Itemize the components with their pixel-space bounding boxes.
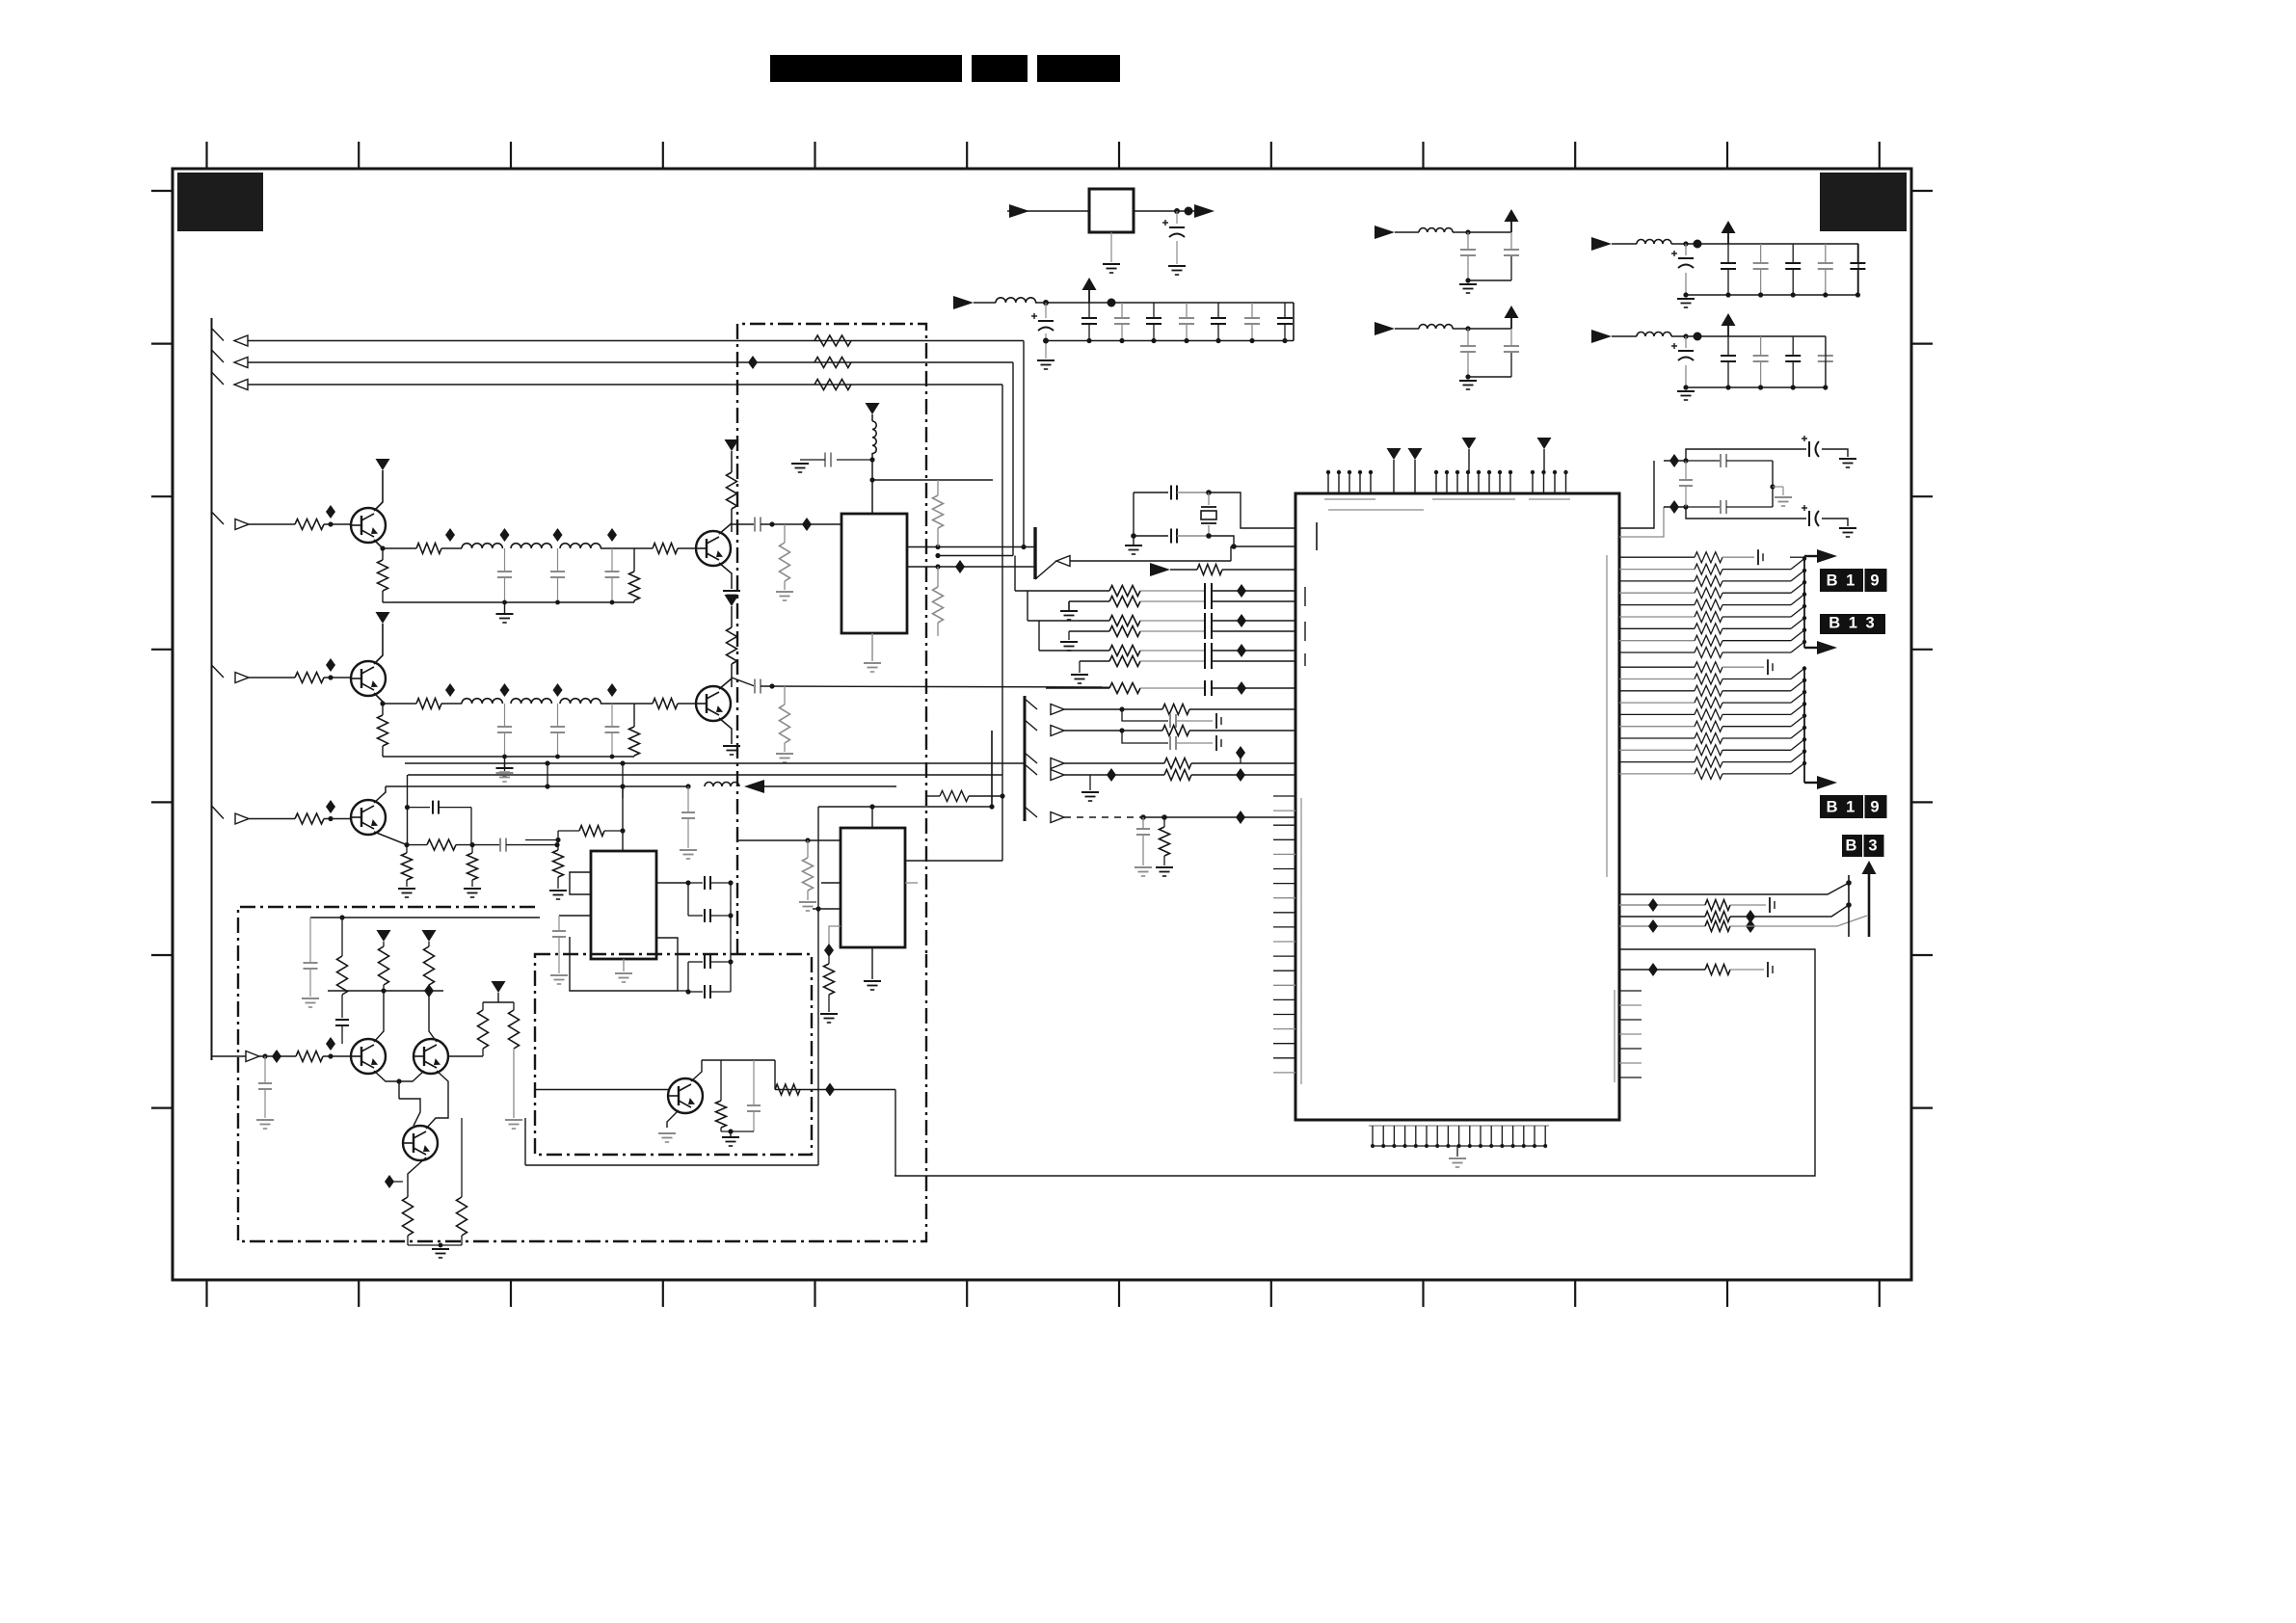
frame tick left bbox=[151, 801, 173, 803]
pin wire bbox=[1619, 666, 1695, 668]
inductor L22 bbox=[511, 699, 551, 704]
pin bbox=[1273, 824, 1295, 826]
wire bbox=[1686, 294, 1858, 296]
bus arrow bbox=[1804, 555, 1820, 557]
pin dot bbox=[1445, 470, 1449, 474]
wire bbox=[1664, 460, 1686, 462]
resistor bank1-8 bbox=[1695, 648, 1722, 658]
wire bbox=[1015, 590, 1109, 592]
signal arrow bbox=[1056, 556, 1070, 567]
power input arrow bbox=[953, 296, 974, 309]
resistor R11 bbox=[295, 519, 324, 530]
wire stub bbox=[212, 806, 225, 819]
inductor L11 bbox=[462, 544, 502, 548]
wire bbox=[1722, 604, 1791, 606]
capacitor C83 bbox=[1186, 303, 1188, 318]
pin dot bbox=[1498, 470, 1502, 474]
pin bbox=[1619, 1062, 1642, 1064]
merge diagonal bbox=[1791, 728, 1804, 738]
node bbox=[439, 1243, 443, 1248]
pin wire bbox=[1619, 616, 1695, 618]
transistor QA3 bbox=[403, 1126, 438, 1160]
frame tick top bbox=[1118, 142, 1120, 169]
capacitor C1b bbox=[1504, 249, 1519, 251]
pin bbox=[1532, 472, 1534, 493]
pin bbox=[1467, 472, 1469, 493]
wire loop bbox=[894, 949, 1815, 1176]
pin bbox=[1499, 472, 1501, 493]
wire bbox=[1212, 600, 1296, 602]
capacitor C17 bbox=[754, 518, 756, 532]
merge diagonal bbox=[1791, 630, 1804, 641]
diamond junction bbox=[326, 505, 335, 519]
wire bbox=[1686, 449, 1806, 461]
pin bbox=[1509, 472, 1511, 493]
diamond junction bbox=[1746, 919, 1755, 933]
dash-dot enclosure tall bbox=[737, 324, 926, 954]
transistor QB1 bbox=[668, 1078, 703, 1113]
merge diagonal bbox=[1791, 704, 1804, 714]
capacitor C1523 bbox=[504, 548, 506, 572]
capacitor C96 bbox=[688, 882, 703, 884]
IC pin stub bbox=[905, 882, 918, 884]
wire bbox=[374, 693, 383, 704]
wire bbox=[1140, 650, 1205, 652]
node bbox=[328, 521, 333, 526]
resistor RB1 bbox=[720, 1060, 722, 1101]
wire bbox=[1140, 590, 1205, 592]
IC U3 bbox=[591, 851, 656, 959]
node bbox=[1683, 241, 1688, 246]
capacitor C1635 bbox=[611, 548, 613, 572]
capacitor bbox=[1204, 653, 1206, 669]
wire bbox=[1039, 650, 1109, 652]
wire bbox=[1007, 210, 1089, 212]
resistor bank2-5 bbox=[1695, 721, 1722, 732]
wire bbox=[426, 1099, 448, 1129]
frame tick bottom bbox=[510, 1280, 512, 1307]
wire bbox=[1730, 916, 1867, 926]
node bbox=[380, 701, 385, 705]
pin bbox=[1273, 912, 1295, 914]
capacitor C27 bbox=[754, 679, 756, 694]
power triangle bbox=[725, 595, 739, 606]
wire bbox=[506, 844, 558, 846]
merge dot bbox=[1802, 726, 1806, 730]
pin bbox=[1393, 1126, 1395, 1146]
pin bbox=[1273, 795, 1295, 797]
capacitor CA2 bbox=[335, 1019, 349, 1021]
merge dot bbox=[1802, 749, 1806, 753]
wire bbox=[1773, 486, 1783, 488]
node bbox=[685, 989, 690, 994]
resistor bank2-4 bbox=[1695, 709, 1722, 720]
resistor bank2-0 bbox=[1695, 662, 1722, 673]
wire bbox=[1189, 708, 1296, 710]
pin dot bbox=[1392, 1144, 1396, 1148]
node bbox=[935, 553, 940, 558]
node bbox=[1823, 385, 1828, 389]
capacitor C30 bbox=[837, 459, 872, 461]
pin bbox=[1404, 1126, 1406, 1146]
capacitor bbox=[1204, 613, 1206, 628]
pin bbox=[1382, 1126, 1384, 1146]
ground bbox=[820, 1013, 838, 1015]
wire bbox=[441, 703, 462, 705]
transistor Q2b bbox=[696, 686, 731, 721]
pin bbox=[1458, 1126, 1460, 1146]
input arrow bbox=[235, 519, 249, 530]
wire bbox=[1664, 506, 1686, 508]
node bbox=[1119, 706, 1124, 711]
node bbox=[555, 600, 560, 605]
inner top wire bbox=[310, 917, 540, 918]
capacitor C61 bbox=[1685, 461, 1687, 480]
wire bbox=[1064, 774, 1164, 776]
power triangle bbox=[1537, 438, 1552, 449]
node bbox=[1140, 814, 1146, 820]
wire bbox=[1619, 904, 1705, 906]
wire bbox=[1395, 231, 1419, 233]
input arrow bbox=[234, 358, 248, 368]
wire bbox=[894, 1090, 896, 1177]
resistor R51 bbox=[1162, 705, 1189, 715]
wire bbox=[374, 624, 383, 664]
node bbox=[1694, 333, 1702, 341]
wire bbox=[1722, 640, 1791, 642]
pin bbox=[1619, 1077, 1642, 1078]
merge diagonal bbox=[1791, 595, 1804, 605]
node bbox=[502, 755, 507, 759]
wire bbox=[1619, 507, 1664, 537]
wire bbox=[678, 703, 696, 705]
wire bbox=[374, 786, 386, 803]
wire bbox=[622, 786, 624, 851]
filter input arrow bbox=[1375, 226, 1395, 239]
ground bbox=[776, 753, 793, 755]
node bbox=[1683, 458, 1688, 463]
node bbox=[1108, 299, 1116, 307]
resistor R96 bbox=[557, 845, 559, 850]
wire bbox=[656, 882, 688, 884]
wire bbox=[1612, 243, 1637, 245]
ground bbox=[1156, 866, 1173, 868]
pin dot bbox=[1414, 1144, 1418, 1148]
ground bbox=[799, 901, 816, 903]
wire bbox=[1176, 742, 1213, 744]
resistor RA6 bbox=[513, 1002, 515, 1010]
inductor L2 bbox=[1419, 325, 1453, 329]
node bbox=[769, 521, 774, 526]
pin bbox=[1426, 1126, 1428, 1146]
resistor R63 bbox=[1705, 921, 1730, 932]
resistor R25 bbox=[653, 699, 678, 709]
wire bbox=[1730, 905, 1849, 917]
capacitor C51 bbox=[1169, 714, 1171, 728]
pin bbox=[1468, 449, 1470, 472]
merge diagonal bbox=[1791, 559, 1804, 570]
signal arrow bbox=[1051, 758, 1064, 769]
resistor bbox=[1109, 656, 1140, 667]
wire bbox=[1012, 362, 1014, 556]
IC U1 ground bbox=[871, 633, 873, 661]
capacitor bbox=[1204, 643, 1206, 658]
wire bbox=[1395, 328, 1419, 330]
resistor R32 bbox=[937, 567, 939, 587]
wire stub bbox=[1025, 699, 1037, 709]
wire bbox=[938, 555, 1013, 557]
wire bbox=[737, 839, 841, 841]
wire bbox=[1722, 773, 1791, 775]
wire dashed bbox=[1064, 816, 1143, 818]
diamond junction bbox=[424, 984, 434, 998]
input bus wire bbox=[211, 318, 213, 1060]
wire bbox=[1064, 730, 1162, 732]
pin wire bbox=[1619, 749, 1695, 751]
wire bbox=[524, 1118, 526, 1165]
frame tick right bbox=[1911, 649, 1933, 651]
diamond junction bbox=[1648, 919, 1658, 933]
capacitor C72 bbox=[1045, 303, 1047, 318]
pin bbox=[1273, 955, 1295, 957]
wire bbox=[324, 677, 351, 678]
power arrow up bbox=[1510, 219, 1512, 232]
wire bbox=[719, 563, 732, 589]
capacitor C42 bbox=[1792, 336, 1794, 356]
label B3 bbox=[1842, 835, 1862, 857]
wire bbox=[1080, 660, 1109, 662]
wire bbox=[730, 883, 732, 916]
frame tick top bbox=[205, 142, 207, 169]
pin dot bbox=[1508, 470, 1512, 474]
node bbox=[1770, 484, 1775, 489]
IC U10 bbox=[1295, 493, 1619, 1120]
merge dot bbox=[1802, 628, 1806, 632]
pin bbox=[1273, 897, 1295, 899]
power triangle bbox=[376, 459, 390, 470]
capacitor C2635 bbox=[611, 704, 613, 727]
wire bbox=[383, 547, 416, 549]
wire bbox=[1468, 279, 1511, 281]
filter input arrow bbox=[1591, 237, 1612, 251]
merge dot bbox=[1802, 702, 1806, 705]
svg-text:B 1 3: B 1 3 bbox=[1829, 615, 1876, 632]
diamond junction bbox=[326, 1037, 335, 1051]
IC inner mark bbox=[1328, 509, 1424, 511]
wire bbox=[817, 807, 819, 840]
resistor bbox=[1109, 626, 1140, 637]
frame tick right bbox=[1911, 954, 1933, 956]
wire bbox=[817, 840, 819, 1165]
wire bbox=[1722, 592, 1791, 594]
wire bbox=[374, 540, 383, 548]
resistor R95 bbox=[579, 826, 604, 837]
wire bbox=[1191, 762, 1296, 764]
merge diagonal bbox=[1791, 618, 1804, 628]
resistor R91 bbox=[295, 813, 324, 824]
frame tick right bbox=[1911, 343, 1933, 345]
pin bbox=[1446, 472, 1448, 493]
wire bbox=[324, 523, 351, 525]
ladder ground rail wire bbox=[383, 601, 634, 603]
wire bbox=[1722, 556, 1754, 558]
node bbox=[815, 906, 820, 911]
merge diagonal bbox=[1791, 752, 1804, 762]
node bbox=[380, 545, 385, 550]
pin dot bbox=[1489, 1144, 1493, 1148]
capacitor C63 bbox=[1686, 506, 1721, 508]
frame tick left bbox=[151, 954, 173, 956]
power arrow up bbox=[1727, 323, 1729, 336]
frame tick bottom bbox=[814, 1280, 815, 1307]
wire bbox=[1069, 600, 1109, 602]
wire bbox=[1619, 461, 1654, 528]
wire bbox=[374, 1071, 424, 1081]
wire bbox=[720, 1060, 722, 1101]
wire bbox=[818, 806, 992, 808]
pin wire bbox=[1619, 678, 1695, 680]
capacitor C52 bbox=[1169, 736, 1171, 750]
node bbox=[685, 784, 690, 788]
wire bbox=[774, 1060, 776, 1090]
diamond junction bbox=[326, 658, 335, 672]
power triangle bbox=[1387, 448, 1402, 460]
signal arrow bbox=[1051, 726, 1064, 736]
node bbox=[1683, 292, 1688, 297]
rail wire bbox=[408, 774, 1002, 776]
resistor RA4 bbox=[296, 1051, 323, 1062]
frame tick bottom bbox=[358, 1280, 360, 1307]
input arrow bbox=[234, 380, 248, 390]
ground bbox=[432, 1248, 449, 1250]
node bbox=[1465, 374, 1470, 379]
pin wire bbox=[1619, 640, 1695, 642]
wire bbox=[408, 1157, 426, 1197]
bus vertical bbox=[1803, 556, 1805, 648]
resistor bank2-8 bbox=[1695, 757, 1722, 767]
diamond junction bbox=[326, 800, 335, 813]
merge diagonal bbox=[1791, 763, 1804, 774]
resistor R12 bbox=[416, 544, 441, 554]
inductor L70 bbox=[996, 298, 1036, 303]
resistor bank2-6 bbox=[1695, 733, 1722, 744]
ground bbox=[723, 590, 740, 592]
merge diagonal bbox=[1791, 692, 1804, 703]
node bbox=[339, 915, 344, 919]
pin bbox=[1544, 1126, 1546, 1146]
pin bbox=[1488, 472, 1490, 493]
pin bbox=[1273, 810, 1295, 811]
ground bbox=[549, 890, 567, 891]
pin dot bbox=[1434, 470, 1438, 474]
svg-text:B 1: B 1 bbox=[1827, 572, 1857, 590]
wire bbox=[1122, 709, 1168, 721]
wire bbox=[1722, 616, 1791, 618]
frame tick top bbox=[1270, 142, 1272, 169]
wire bbox=[1140, 630, 1205, 632]
resistor R22 bbox=[416, 699, 441, 709]
diamond junction bbox=[955, 560, 965, 573]
pin bbox=[1393, 460, 1395, 493]
dash-dot enclosure inner bbox=[535, 954, 812, 1155]
diamond junction bbox=[272, 1050, 281, 1063]
pin dot bbox=[1455, 470, 1459, 474]
wire loop bbox=[570, 937, 678, 991]
IC pin stub bbox=[821, 882, 841, 884]
pin bbox=[1359, 472, 1361, 493]
wire bbox=[212, 1055, 247, 1057]
node bbox=[555, 755, 560, 759]
pin bbox=[1273, 1057, 1295, 1059]
crystal X1 bbox=[1208, 492, 1210, 505]
wire bbox=[525, 1164, 818, 1166]
diamond junction bbox=[1237, 614, 1246, 627]
bus arrow bbox=[1804, 647, 1820, 649]
merge diagonal bbox=[1791, 739, 1804, 750]
pin bbox=[1554, 472, 1556, 493]
node bbox=[1043, 338, 1049, 344]
resistor R34 bbox=[807, 840, 809, 858]
node bbox=[328, 675, 333, 679]
pin bbox=[1523, 1126, 1525, 1146]
frame tick top bbox=[1422, 142, 1424, 169]
resistor RA5 bbox=[482, 1002, 484, 1010]
pin dot bbox=[1553, 470, 1557, 474]
svg-text:9: 9 bbox=[1870, 572, 1881, 590]
diamond junction bbox=[445, 528, 455, 542]
node bbox=[869, 457, 874, 462]
pin group bracket bbox=[1432, 498, 1515, 500]
merge dot bbox=[1802, 569, 1806, 572]
pin bbox=[1619, 1019, 1642, 1021]
capacitor C33 bbox=[1825, 244, 1827, 263]
wire bbox=[398, 1081, 400, 1099]
IC inner bracket bbox=[1300, 798, 1302, 1084]
ground bbox=[1071, 674, 1088, 676]
input arrow bbox=[246, 1051, 259, 1062]
frame tick bottom bbox=[1879, 1280, 1881, 1307]
wire bbox=[907, 546, 1035, 548]
pin bbox=[1543, 449, 1545, 472]
ground bbox=[505, 1119, 522, 1121]
ladder ground rail wire bbox=[383, 756, 634, 758]
wire bbox=[1722, 652, 1791, 653]
merge dot bbox=[1802, 604, 1806, 608]
wire bbox=[1140, 600, 1205, 602]
base wire bbox=[536, 1089, 668, 1091]
wire bbox=[872, 479, 993, 481]
wire bbox=[1722, 713, 1791, 715]
wire bbox=[1035, 561, 1056, 579]
wire bbox=[813, 908, 841, 910]
wire bbox=[1722, 666, 1764, 668]
resistor R27 bbox=[784, 686, 786, 705]
node bbox=[1725, 292, 1730, 297]
resistor bank1-7 bbox=[1695, 635, 1722, 646]
wire stub bbox=[1025, 753, 1037, 763]
svg-text:B: B bbox=[1846, 838, 1859, 855]
ground bbox=[550, 974, 568, 976]
wire bbox=[1038, 621, 1040, 651]
pin dot bbox=[1369, 470, 1373, 474]
capacitor C92 bbox=[499, 838, 501, 852]
wire stub bbox=[1025, 764, 1037, 775]
node bbox=[728, 959, 733, 964]
node bbox=[989, 804, 994, 809]
wire bbox=[761, 686, 1109, 687]
wire bbox=[1619, 969, 1705, 971]
wire bbox=[1212, 590, 1296, 592]
